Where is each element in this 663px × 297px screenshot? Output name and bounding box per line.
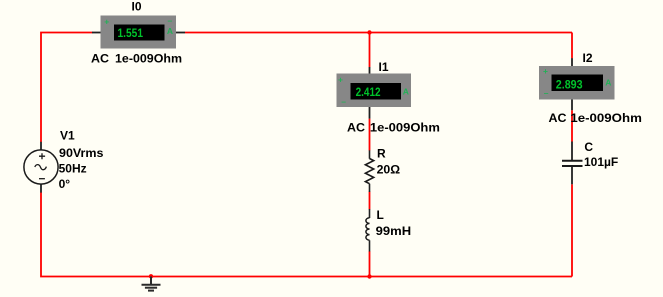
node: junction bottom (middle branch / bottom wire) (367, 274, 371, 278)
ammeter I1 body (337, 74, 412, 108)
ammeter I1 leads (369, 67, 371, 75)
resistor R leads (369, 150, 371, 158)
svg-text:101µF: 101µF (584, 155, 618, 169)
wire: top segment from I0 to top-right corner (185, 32, 572, 34)
ammeter I2 leads (571, 58, 573, 66)
svg-text:0°: 0° (59, 177, 71, 191)
svg-text:AC: AC (347, 120, 365, 134)
svg-text:AC: AC (91, 51, 109, 65)
svg-text:I0: I0 (132, 0, 142, 14)
svg-text:–: – (341, 96, 346, 106)
svg-text:A: A (605, 78, 611, 88)
svg-text:1e-009Ohm: 1e-009Ohm (570, 111, 642, 125)
wire: top-left loop (left vertical upper + top segment to I0) (41, 33, 93, 143)
svg-text:1e-009Ohm: 1e-009Ohm (370, 120, 440, 134)
svg-text:C: C (584, 140, 593, 154)
wire: right vertical C to bottom (571, 184, 573, 276)
svg-text:–: – (168, 16, 173, 26)
svg-text:1e-009Ohm: 1e-009Ohm (115, 51, 182, 65)
svg-text:+: + (543, 66, 548, 76)
inductor L leads (369, 209, 371, 218)
wire: middle branch top junction to I1 (369, 33, 371, 68)
resistor R (365, 159, 373, 184)
svg-text:+: + (338, 74, 343, 84)
svg-text:50Hz: 50Hz (59, 161, 87, 175)
wire: middle branch L to bottom junction (369, 251, 371, 276)
svg-text:–: – (544, 88, 549, 98)
wire: right vertical upper (corner to I2) (571, 33, 573, 59)
ammeter I0 body (101, 16, 177, 49)
svg-text:I2: I2 (583, 51, 593, 65)
svg-text:2.893: 2.893 (556, 77, 583, 91)
ground (142, 277, 161, 291)
wire: middle branch R to L (369, 192, 371, 210)
svg-text:I1: I1 (379, 60, 389, 74)
capacitor C (562, 161, 583, 166)
ammeter I2 body (539, 66, 615, 100)
svg-text:A: A (167, 26, 173, 36)
capacitor C leads (571, 142, 573, 161)
inductor L (366, 218, 370, 240)
svg-text:A: A (403, 86, 409, 96)
source V1 body (24, 150, 58, 184)
svg-text:99mH: 99mH (376, 224, 412, 238)
wire: right vertical I2 to C (571, 110, 573, 141)
wire: middle branch I1 to R (369, 119, 371, 151)
svg-text:+: + (104, 16, 109, 26)
node: junction top (middle branch / top wire) (367, 30, 371, 34)
svg-text:2.412: 2.412 (356, 85, 381, 99)
svg-text:90Vrms: 90Vrms (59, 146, 104, 160)
svg-text:V1: V1 (60, 129, 75, 143)
ammeter I0 leads (92, 32, 101, 34)
node: junction ground (bottom wire) (149, 274, 153, 278)
svg-text:R: R (377, 147, 386, 161)
svg-text:1.551: 1.551 (118, 26, 144, 40)
svg-text:L: L (377, 208, 384, 222)
svg-text:20Ω: 20Ω (377, 163, 401, 177)
svg-text:AC: AC (549, 111, 567, 125)
wire: left vertical lower + bottom segment (41, 192, 572, 276)
source V1 leads (40, 142, 42, 151)
